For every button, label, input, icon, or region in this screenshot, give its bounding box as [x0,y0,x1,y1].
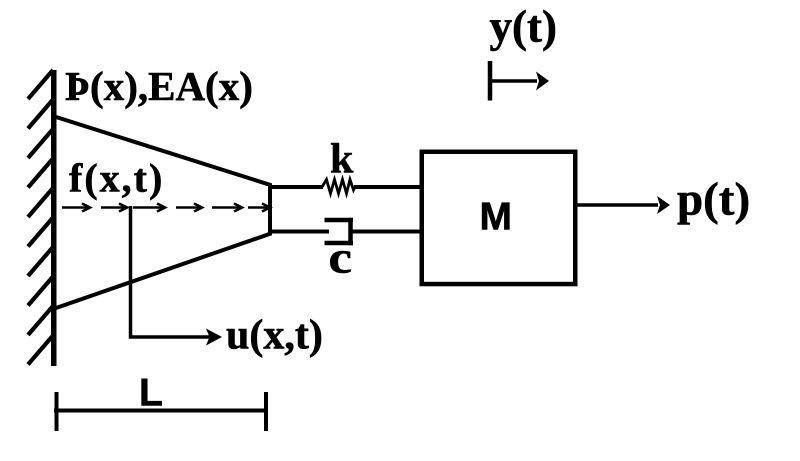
svg-text:M: M [480,196,513,239]
svg-text:f(x,t): f(x,t) [69,156,164,201]
svg-text:Þ(x),EA(x): Þ(x),EA(x) [65,63,253,109]
svg-text:y(t): y(t) [490,1,557,51]
svg-text:u(x,t): u(x,t) [226,312,323,358]
svg-text:L: L [139,372,163,415]
svg-text:k: k [330,136,354,182]
svg-text:p(t): p(t) [677,174,750,226]
svg-text:c: c [329,232,352,283]
